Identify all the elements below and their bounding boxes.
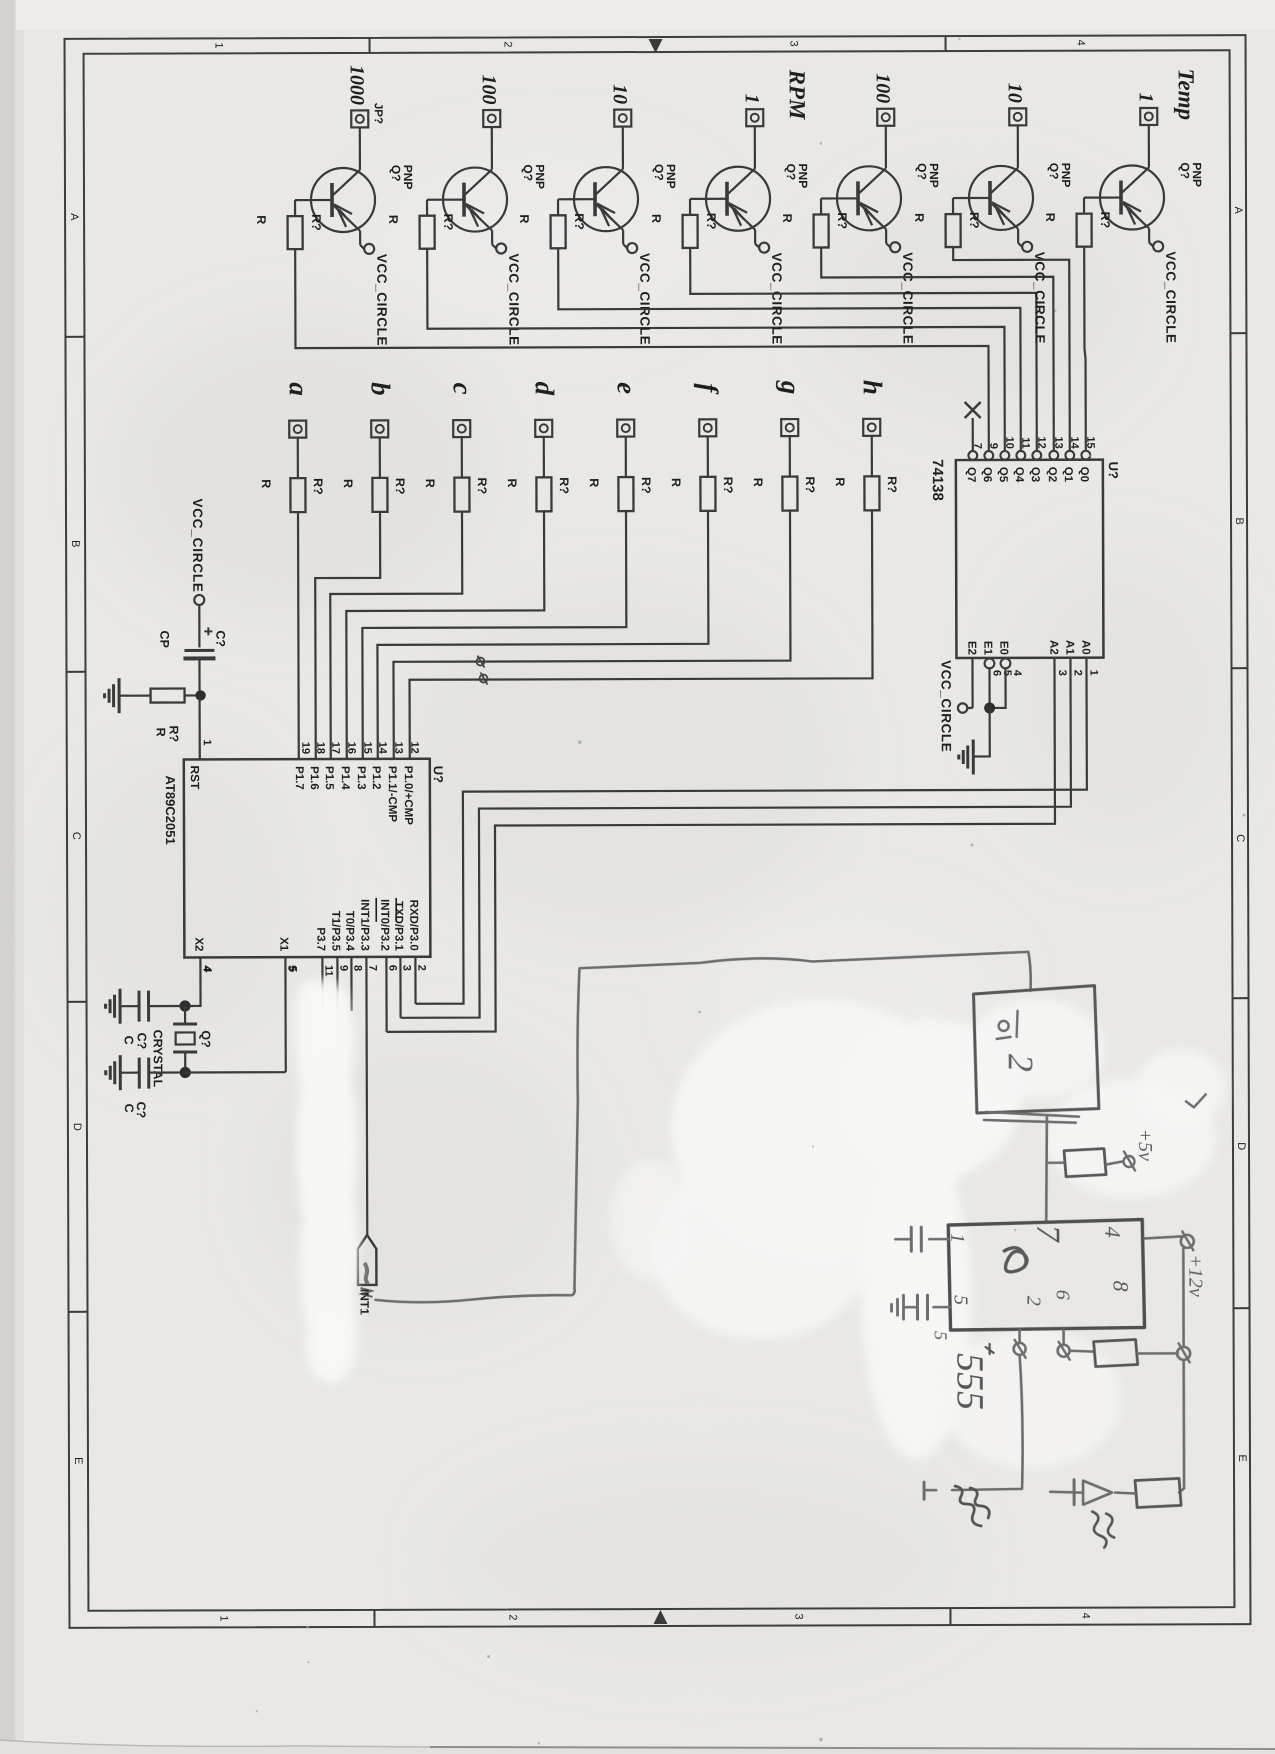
svg-text:12: 12 bbox=[1035, 437, 1047, 449]
wire to 74138 pin 14 bbox=[953, 247, 1070, 451]
wire bbox=[886, 229, 890, 247]
svg-text:11: 11 bbox=[1019, 437, 1031, 449]
connector pad d bbox=[535, 420, 552, 437]
net label 100 bbox=[872, 73, 894, 103]
transistor Q5 (PNP) bbox=[837, 166, 901, 230]
pencil bar end bbox=[924, 1482, 936, 1499]
wire bbox=[333, 127, 360, 195]
resistor R? (reset) bbox=[151, 688, 196, 702]
label R6 bbox=[912, 212, 981, 229]
svg-text:17: 17 bbox=[329, 742, 341, 754]
svg-text:R?: R? bbox=[393, 478, 407, 495]
resistor Rb bbox=[372, 478, 387, 512]
svg-text:Q5: Q5 bbox=[997, 467, 1009, 483]
power VCC_CIRCLE Q7 bbox=[1153, 241, 1178, 343]
wire to U? pin 15 bbox=[362, 511, 627, 759]
svg-text:100: 100 bbox=[872, 73, 894, 103]
net label f bbox=[694, 383, 724, 395]
wire E2 to VCC bbox=[967, 658, 972, 708]
svg-text:1: 1 bbox=[741, 94, 763, 104]
wire bbox=[728, 126, 755, 194]
wire bbox=[953, 198, 969, 214]
svg-text:100: 100 bbox=[478, 74, 500, 104]
svg-text:A: A bbox=[68, 213, 80, 221]
wire bbox=[295, 200, 311, 216]
74138 bottom pin numbers bbox=[990, 670, 1099, 677]
label Q3 bbox=[652, 164, 678, 189]
svg-text:6: 6 bbox=[386, 965, 398, 971]
decoder U? 74138 bbox=[956, 460, 1104, 658]
resistor Rd bbox=[536, 477, 551, 511]
pencil cap+gnd (pin5) bbox=[891, 1295, 950, 1319]
wire bbox=[821, 198, 837, 214]
74138 output pin circles bbox=[968, 451, 1090, 460]
wire to U? pin 13 bbox=[393, 511, 791, 759]
wire TXD/P3.1 bbox=[399, 957, 401, 1018]
wire bbox=[121, 1072, 139, 1074]
pencil scribble 22 bbox=[955, 1486, 989, 1526]
connector pad b bbox=[371, 420, 388, 437]
svg-text:R: R bbox=[1043, 213, 1057, 222]
pencil cap (pin1) bbox=[895, 1227, 948, 1251]
transistor Q4 (PNP) bbox=[706, 167, 770, 231]
connector pad JP3 bbox=[614, 110, 631, 127]
svg-text:R?: R? bbox=[311, 478, 325, 495]
svg-text:E: E bbox=[72, 1457, 84, 1464]
wire bbox=[121, 1005, 139, 1007]
svg-text:Q4: Q4 bbox=[1013, 467, 1025, 483]
MCU bottom pin numbers bbox=[200, 965, 427, 977]
MCU U? AT89C2051 bbox=[184, 759, 431, 958]
svg-text:9: 9 bbox=[337, 965, 349, 971]
label C? bbox=[213, 630, 227, 647]
transistor Q6 (PNP) bbox=[969, 166, 1033, 230]
net label d bbox=[530, 382, 560, 396]
svg-text:R: R bbox=[259, 479, 273, 488]
wire bbox=[789, 436, 791, 476]
junction mark bbox=[476, 656, 484, 668]
pencil wire bbox=[1046, 1116, 1047, 1222]
svg-text:1: 1 bbox=[213, 42, 225, 48]
wire bbox=[184, 1052, 186, 1072]
svg-text:7: 7 bbox=[366, 965, 378, 971]
pencil 555 box bbox=[948, 1219, 1144, 1330]
svg-text:10: 10 bbox=[609, 84, 631, 104]
svg-text:18: 18 bbox=[314, 742, 326, 754]
net label e bbox=[612, 382, 642, 394]
74138 address labels bbox=[1047, 640, 1091, 655]
label JP? bbox=[372, 103, 384, 124]
svg-text:1: 1 bbox=[1087, 670, 1099, 676]
svg-text:U?: U? bbox=[1106, 462, 1121, 479]
transistor Q1 (PNP) bbox=[311, 168, 375, 232]
svg-text:h: h bbox=[858, 380, 888, 395]
label R4 bbox=[649, 213, 718, 230]
wire bbox=[1149, 228, 1153, 246]
svg-text:R: R bbox=[505, 478, 519, 487]
label C? C (bottom) bbox=[122, 1102, 148, 1119]
wire RST bbox=[198, 695, 200, 759]
label Rb bbox=[341, 478, 407, 495]
svg-text:Q2: Q2 bbox=[1046, 467, 1058, 482]
wire X1 bbox=[284, 957, 287, 1072]
svg-text:VCC_CIRCLE: VCC_CIRCLE bbox=[769, 253, 784, 345]
resistor R5 bbox=[814, 214, 829, 247]
svg-text:C: C bbox=[1234, 834, 1246, 842]
svg-text:PNP: PNP bbox=[1059, 163, 1073, 188]
resistor R7 bbox=[1077, 214, 1092, 247]
label U? bbox=[1106, 462, 1121, 479]
label Q7 bbox=[1178, 162, 1204, 187]
svg-text:P1.7: P1.7 bbox=[293, 766, 305, 790]
wire to X1 bbox=[185, 1071, 285, 1074]
svg-text:VCC_CIRCLE: VCC_CIRCLE bbox=[506, 253, 521, 345]
svg-text:5: 5 bbox=[286, 966, 298, 972]
wire bbox=[1122, 125, 1149, 193]
svg-text:8: 8 bbox=[351, 965, 363, 971]
resistor R2 bbox=[420, 216, 435, 249]
wire to U? pin 19 bbox=[297, 512, 300, 759]
label Temp bbox=[1174, 69, 1199, 121]
pin circle E0 bbox=[1001, 658, 1011, 668]
connector pad e bbox=[617, 420, 634, 437]
svg-text:CRYSTAL: CRYSTAL bbox=[151, 1030, 165, 1088]
label R3 bbox=[517, 213, 586, 230]
label R1 bbox=[254, 214, 323, 231]
wire bbox=[427, 200, 443, 216]
label pin 4 bbox=[201, 966, 213, 973]
svg-text:PNP: PNP bbox=[927, 163, 941, 188]
connector pad g bbox=[781, 419, 798, 436]
pencil +12 rail bbox=[1178, 1248, 1184, 1492]
svg-text:1: 1 bbox=[201, 739, 213, 745]
connector pad JP2 bbox=[483, 110, 500, 127]
svg-text:INT0/P3.2: INT0/P3.2 bbox=[378, 899, 390, 951]
MCU top pin numbers bbox=[299, 741, 420, 754]
connector pad h bbox=[863, 419, 880, 436]
wire bbox=[543, 437, 545, 477]
pencil scribble (555 center) bbox=[1004, 1248, 1027, 1272]
svg-text:Q7: Q7 bbox=[965, 467, 977, 482]
svg-text:VCC_CIRCLE: VCC_CIRCLE bbox=[1163, 251, 1178, 343]
pencil +12 node mid bbox=[1177, 1343, 1190, 1362]
junction mark bbox=[480, 673, 488, 685]
svg-text:9: 9 bbox=[987, 443, 999, 449]
svg-text:15: 15 bbox=[1084, 436, 1096, 448]
label Rf bbox=[669, 477, 735, 494]
wire bbox=[198, 658, 200, 695]
resistor Ra bbox=[290, 478, 305, 512]
wire INT0/P3.2 bbox=[385, 957, 387, 1032]
wire to ground bbox=[974, 708, 990, 757]
svg-text:14: 14 bbox=[1068, 436, 1080, 449]
resistor Rh bbox=[864, 476, 879, 510]
svg-text:14: 14 bbox=[376, 742, 388, 755]
net label 10 bbox=[609, 84, 631, 104]
svg-text:13: 13 bbox=[392, 742, 404, 754]
svg-text:Q?: Q? bbox=[915, 163, 929, 180]
svg-text:B: B bbox=[69, 540, 81, 547]
svg-text:P1.4: P1.4 bbox=[339, 766, 351, 790]
svg-text:4: 4 bbox=[1075, 40, 1087, 46]
svg-text:VCC_CIRCLE: VCC_CIRCLE bbox=[374, 254, 389, 346]
MCU P1 labels bbox=[293, 766, 414, 826]
label U? (MCU) bbox=[431, 766, 446, 783]
capacitor C? (CP) bbox=[183, 627, 215, 658]
svg-text:A2: A2 bbox=[1047, 640, 1059, 655]
power VCC_CIRCLE Q2 bbox=[496, 243, 521, 345]
svg-text:T1/P3.5: T1/P3.5 bbox=[329, 911, 341, 952]
pencil wire INT1 to relay box bbox=[374, 952, 1031, 1303]
svg-text:E2: E2 bbox=[965, 641, 977, 655]
connector pad c bbox=[453, 420, 470, 437]
svg-text:D: D bbox=[1235, 1142, 1247, 1150]
svg-text:+5v: +5v bbox=[1134, 1128, 1156, 1161]
pencil 555 pin digits bbox=[946, 1225, 1133, 1307]
svg-text:Q?: Q? bbox=[199, 1030, 213, 1047]
svg-text:P1.3: P1.3 bbox=[355, 766, 367, 790]
net label 1 bbox=[1135, 92, 1157, 102]
wire to U? pin 12 bbox=[409, 510, 873, 758]
wire to U? pin 16 bbox=[346, 511, 545, 759]
power VCC_CIRCLE Q3 bbox=[627, 243, 652, 345]
svg-text:C?: C? bbox=[213, 630, 227, 647]
connector pad JP1 bbox=[351, 110, 368, 127]
wire bbox=[184, 1006, 186, 1022]
svg-text:P1.1/-CMP: P1.1/-CMP bbox=[386, 766, 398, 823]
svg-text:VCC_CIRCLE: VCC_CIRCLE bbox=[190, 498, 205, 592]
svg-text:CP: CP bbox=[157, 631, 171, 648]
svg-text:2: 2 bbox=[415, 965, 427, 971]
svg-text:2: 2 bbox=[1071, 670, 1083, 676]
svg-text:1: 1 bbox=[1135, 92, 1157, 102]
wire to U? pin 18 bbox=[315, 512, 381, 759]
resistor Rf bbox=[700, 477, 715, 511]
wire to 74138 pin 10 bbox=[427, 247, 1005, 453]
scan speckles bbox=[250, 37, 1248, 1746]
svg-text:C: C bbox=[122, 1036, 136, 1045]
resistor Rg bbox=[782, 477, 797, 511]
svg-text:1: 1 bbox=[946, 1233, 968, 1243]
overbar INT1 bbox=[375, 898, 377, 922]
wire bbox=[596, 127, 623, 195]
junction bbox=[179, 1000, 190, 1011]
svg-text:R: R bbox=[649, 214, 663, 223]
wire bbox=[623, 230, 627, 248]
svg-text:D: D bbox=[71, 1123, 83, 1131]
svg-text:2: 2 bbox=[1022, 1296, 1044, 1306]
label RPM bbox=[785, 69, 810, 121]
label R (reset) bbox=[154, 725, 181, 742]
label Ra bbox=[259, 478, 325, 495]
label C? C (top) bbox=[122, 1033, 149, 1050]
pencil check mark bbox=[1186, 1094, 1206, 1107]
svg-text:Q?: Q? bbox=[1047, 163, 1061, 180]
74138 output labels bbox=[965, 467, 1090, 483]
wire to 74138 pin 13 bbox=[821, 247, 1054, 452]
svg-text:Q?: Q? bbox=[652, 164, 666, 181]
svg-text:R?: R? bbox=[803, 476, 817, 493]
pencil node phi (+5V) bbox=[1124, 1151, 1136, 1170]
junction bbox=[180, 1067, 191, 1078]
svg-text:1000: 1000 bbox=[346, 65, 368, 105]
label Q5 bbox=[915, 163, 941, 188]
label Re bbox=[587, 477, 653, 494]
wire bbox=[461, 437, 463, 477]
svg-text:R?: R? bbox=[1098, 212, 1112, 229]
pencil label 555 bbox=[949, 1344, 994, 1410]
svg-text:2: 2 bbox=[506, 1614, 518, 1620]
power VCC_CIRCLE Q1 bbox=[364, 244, 389, 346]
wire bbox=[120, 694, 151, 696]
svg-text:VCC_CIRCLE: VCC_CIRCLE bbox=[1032, 252, 1047, 344]
svg-text:C: C bbox=[70, 832, 82, 840]
svg-text:16: 16 bbox=[345, 742, 357, 754]
svg-text:R: R bbox=[587, 478, 601, 487]
svg-text:Q?: Q? bbox=[784, 164, 798, 181]
svg-text:5: 5 bbox=[949, 1295, 971, 1305]
wire to U? pin 17 bbox=[330, 512, 463, 759]
svg-text:E: E bbox=[1236, 1454, 1248, 1461]
ground bbox=[959, 740, 974, 775]
wire bbox=[690, 199, 706, 215]
svg-text:R: R bbox=[154, 728, 168, 737]
pencil label 5 bbox=[931, 1331, 951, 1340]
svg-text:AT89C2051: AT89C2051 bbox=[163, 776, 178, 845]
no-connect X on pin 7 bbox=[965, 402, 981, 451]
white-out patches bbox=[295, 977, 1227, 1471]
net label b bbox=[366, 382, 396, 396]
svg-text:Q0: Q0 bbox=[1078, 467, 1090, 482]
wire bbox=[871, 436, 873, 476]
svg-text:B: B bbox=[1233, 517, 1245, 524]
svg-text:P1.2: P1.2 bbox=[370, 766, 382, 790]
wire bbox=[379, 437, 381, 477]
svg-text:PNP: PNP bbox=[401, 165, 415, 190]
resistor R1 bbox=[288, 216, 303, 249]
svg-text:C: C bbox=[122, 1104, 136, 1113]
svg-text:C?: C? bbox=[135, 1033, 149, 1050]
power VCC_CIRCLE Q6 bbox=[1022, 242, 1047, 344]
svg-text:R: R bbox=[517, 214, 531, 223]
svg-text:RST: RST bbox=[188, 765, 202, 790]
crystal Q? bbox=[173, 1024, 197, 1052]
net label 1000 bbox=[346, 65, 368, 105]
ground (c1) bbox=[105, 989, 120, 1024]
svg-text:12: 12 bbox=[408, 741, 420, 753]
wire bbox=[625, 437, 627, 477]
resistor R3 bbox=[551, 215, 566, 248]
wire bbox=[755, 230, 759, 248]
resistor Rc bbox=[454, 478, 469, 512]
svg-text:10: 10 bbox=[1004, 83, 1026, 103]
label AT89C2051 bbox=[163, 776, 178, 845]
svg-text:R?: R? bbox=[835, 212, 849, 229]
svg-text:VCC_CIRCLE: VCC_CIRCLE bbox=[938, 660, 953, 752]
label Q2 bbox=[521, 164, 547, 189]
svg-text:TXD/P3.1: TXD/P3.1 bbox=[392, 901, 404, 951]
svg-text:6: 6 bbox=[990, 670, 1002, 676]
wire bbox=[492, 231, 496, 249]
svg-text:P1.5: P1.5 bbox=[323, 766, 335, 790]
svg-text:RXD/P3.0: RXD/P3.0 bbox=[407, 900, 419, 951]
resistor R6 bbox=[946, 214, 961, 247]
pencil label ss bbox=[1092, 1512, 1114, 1548]
svg-text:X2: X2 bbox=[192, 937, 204, 951]
svg-text:X1: X1 bbox=[277, 937, 289, 952]
ground (c2) bbox=[106, 1055, 121, 1090]
ground (reset) bbox=[105, 678, 120, 713]
label CRYSTAL bbox=[151, 1030, 165, 1088]
svg-text:c: c bbox=[448, 383, 478, 395]
wire to U? pin 14 bbox=[377, 511, 709, 759]
svg-text:A1: A1 bbox=[1063, 640, 1075, 655]
label 74138 bbox=[929, 459, 946, 501]
svg-text:2: 2 bbox=[1001, 1054, 1041, 1072]
svg-text:P1.6: P1.6 bbox=[308, 766, 320, 790]
net label g bbox=[776, 380, 806, 395]
wire INT1/P3.3 bbox=[365, 957, 368, 1235]
wire bbox=[465, 127, 492, 195]
junction bbox=[984, 702, 995, 713]
wire bbox=[991, 125, 1018, 193]
svg-text:2: 2 bbox=[502, 41, 514, 47]
pencil +12 node top bbox=[1144, 1231, 1194, 1250]
svg-text:R: R bbox=[912, 213, 926, 222]
net label c bbox=[448, 383, 478, 395]
svg-text:13: 13 bbox=[1052, 436, 1064, 448]
svg-text:R: R bbox=[341, 479, 355, 488]
label Q4 bbox=[784, 164, 810, 189]
74138 enable labels bbox=[965, 641, 1009, 656]
scribble over INT1 bbox=[360, 1288, 372, 1297]
svg-text:R?: R? bbox=[167, 725, 181, 742]
wire bbox=[360, 231, 364, 249]
wire E1 bbox=[988, 668, 990, 708]
svg-text:Q?: Q? bbox=[1178, 162, 1192, 179]
svg-text:U?: U? bbox=[431, 766, 446, 783]
wire X2 bbox=[185, 957, 200, 1006]
wire bbox=[198, 605, 200, 647]
pencil resistor (lamp) bbox=[1115, 1478, 1181, 1507]
pencil relay symbols bbox=[997, 1011, 1041, 1072]
svg-text:555: 555 bbox=[949, 1353, 991, 1410]
svg-text:T0/P3.4: T0/P3.4 bbox=[343, 911, 355, 952]
wire bbox=[297, 438, 299, 478]
svg-text:R?: R? bbox=[572, 213, 586, 230]
svg-text:4: 4 bbox=[1011, 670, 1023, 677]
svg-text:P3.7: P3.7 bbox=[314, 927, 326, 951]
svg-text:3: 3 bbox=[792, 1613, 804, 1619]
svg-text:74138: 74138 bbox=[929, 459, 946, 501]
wire to 74138 pin 11 bbox=[558, 247, 1021, 452]
svg-text:R?: R? bbox=[441, 214, 455, 231]
svg-text:R: R bbox=[386, 215, 400, 224]
svg-text:R?: R? bbox=[309, 214, 323, 231]
svg-text:4: 4 bbox=[201, 966, 213, 973]
pencil pin6 node bbox=[1058, 1330, 1070, 1360]
svg-text:R?: R? bbox=[639, 477, 653, 494]
connector pad f bbox=[699, 419, 716, 436]
pencil resistor (pin6) bbox=[1094, 1339, 1178, 1366]
net label a bbox=[284, 382, 314, 396]
svg-text:7: 7 bbox=[1029, 1225, 1066, 1244]
wire to 74138 pin 15 bbox=[1084, 247, 1086, 451]
pin circle E1 bbox=[985, 659, 995, 669]
pencil diode bbox=[1050, 1480, 1112, 1505]
svg-text:d: d bbox=[530, 382, 560, 396]
svg-text:Q3: Q3 bbox=[1029, 467, 1041, 482]
